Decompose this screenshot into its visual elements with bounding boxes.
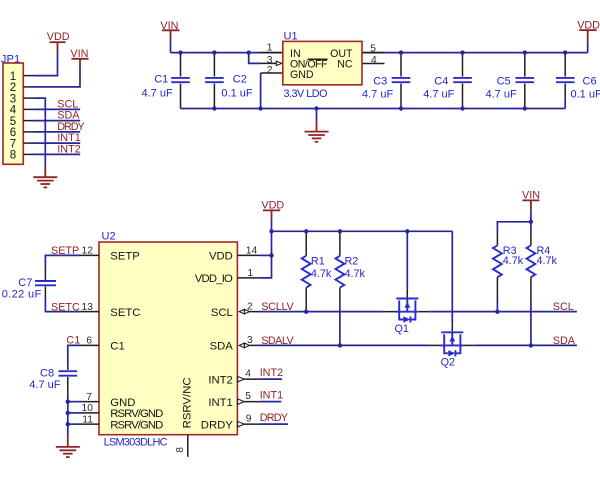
svg-text:4.7 uF: 4.7 uF bbox=[486, 88, 517, 100]
pin lead U1 pin2 (GND) bbox=[261, 72, 283, 74]
power VDD (top left) bbox=[47, 31, 70, 51]
svg-text:4.7k: 4.7k bbox=[503, 255, 524, 267]
svg-text:DRDY: DRDY bbox=[201, 419, 233, 431]
node dots top rail bbox=[178, 50, 567, 54]
svg-text:10: 10 bbox=[82, 403, 94, 414]
capacitor C4 bbox=[434, 53, 472, 109]
svg-text:RSRV/NC: RSRV/NC bbox=[182, 377, 194, 428]
wire U2 pin9 DRDY bbox=[238, 421, 288, 427]
wire C8 to ground column bbox=[67, 396, 69, 436]
svg-text:SDALV: SDALV bbox=[261, 335, 294, 347]
svg-text:SCL: SCL bbox=[211, 307, 233, 319]
wire JP1 pin3 to ground bbox=[23, 98, 45, 165]
pin lead U1 pin5 (OUT) bbox=[362, 52, 384, 54]
pin lead U1 pin1 bbox=[260, 52, 283, 54]
svg-text:13: 13 bbox=[82, 302, 94, 313]
node dot VDD stem/rail bbox=[269, 229, 273, 233]
svg-text:6: 6 bbox=[10, 127, 16, 139]
svg-text:3: 3 bbox=[247, 335, 253, 346]
svg-text:4: 4 bbox=[10, 105, 17, 117]
svg-text:R1: R1 bbox=[311, 256, 325, 268]
wire U2 pin10 bbox=[68, 412, 99, 414]
svg-text:C3: C3 bbox=[373, 75, 387, 87]
svg-text:0.1 uF: 0.1 uF bbox=[221, 87, 252, 99]
svg-text:U1: U1 bbox=[284, 31, 298, 43]
wire JP1 pin5 SDA bbox=[23, 120, 80, 122]
node dot R2/SDALV bbox=[338, 343, 342, 347]
node dots C8 column bbox=[66, 399, 70, 426]
wire U2 pin7 bbox=[68, 401, 99, 403]
svg-text:C4: C4 bbox=[434, 75, 448, 87]
svg-text:5: 5 bbox=[370, 43, 376, 54]
svg-text:GND: GND bbox=[110, 397, 135, 409]
svg-text:VDD_IO: VDD_IO bbox=[195, 273, 233, 285]
svg-text:11: 11 bbox=[82, 414, 93, 425]
svg-text:5: 5 bbox=[245, 391, 251, 402]
transistor Q1 bbox=[384, 231, 429, 334]
svg-text:4.7 uF: 4.7 uF bbox=[362, 88, 393, 100]
svg-text:INT2: INT2 bbox=[260, 367, 283, 379]
wire VIN rail (top) bbox=[171, 52, 588, 54]
wire U2 pin4 INT2 bbox=[238, 376, 282, 382]
svg-text:VDD: VDD bbox=[577, 19, 600, 31]
svg-text:SDA: SDA bbox=[210, 341, 234, 353]
resistor R4 bbox=[527, 222, 551, 346]
capacitor C7 bbox=[18, 268, 56, 298]
svg-text:1: 1 bbox=[248, 268, 254, 279]
svg-text:LSM303DLHC: LSM303DLHC bbox=[104, 436, 168, 448]
svg-text:5: 5 bbox=[10, 116, 16, 128]
svg-text:INT1: INT1 bbox=[260, 390, 283, 402]
power VDD (above U2) bbox=[261, 200, 284, 221]
svg-text:SCL: SCL bbox=[553, 301, 574, 313]
wire VIN stem down bbox=[530, 211, 532, 222]
wire U2 pin6 to C8 bbox=[68, 345, 99, 364]
svg-text:8: 8 bbox=[10, 150, 16, 162]
svg-text:4.7 uF: 4.7 uF bbox=[142, 87, 173, 99]
wire VIN branch to R3 bbox=[497, 222, 531, 233]
wire U2 pin1 VDD_IO bbox=[237, 255, 271, 278]
svg-text:6: 6 bbox=[86, 336, 92, 347]
wire VIN stem to rail bbox=[170, 40, 172, 53]
svg-text:SDA: SDA bbox=[57, 110, 80, 122]
connector JP1 bbox=[1, 53, 24, 164]
svg-text:INT2: INT2 bbox=[57, 143, 80, 155]
svg-text:INT2: INT2 bbox=[208, 374, 232, 386]
resistor R1 bbox=[302, 231, 325, 311]
svg-text:SETP: SETP bbox=[110, 251, 140, 263]
capacitor C1 bbox=[154, 53, 190, 109]
capacitor C6 bbox=[556, 53, 597, 109]
node dot VIN branch bbox=[529, 220, 533, 224]
svg-text:SCL: SCL bbox=[57, 98, 78, 110]
node dot R3/SCL bbox=[495, 309, 499, 313]
power VIN (regulator input) bbox=[160, 20, 179, 40]
svg-text:1: 1 bbox=[10, 71, 16, 83]
ground (below JP1) bbox=[33, 166, 57, 188]
pin lead U1 pin3 with arrow bbox=[260, 61, 282, 65]
svg-text:GND: GND bbox=[290, 69, 314, 81]
svg-text:SETC: SETC bbox=[110, 307, 140, 319]
svg-text:4.7 uF: 4.7 uF bbox=[29, 379, 60, 391]
svg-text:C2: C2 bbox=[233, 74, 247, 86]
svg-text:VDD: VDD bbox=[47, 31, 70, 43]
wire VDD rail stem (top right) bbox=[587, 41, 589, 52]
wire U2 pin5 INT1 bbox=[238, 399, 282, 405]
op-amp U1 regulator box bbox=[283, 31, 362, 101]
wire U2 pin12 to C7 bbox=[45, 255, 99, 267]
node: rail split to U1 pin3 bbox=[249, 53, 260, 64]
pin 8 stub bbox=[175, 435, 188, 457]
wire SCL (Q1 to right edge) bbox=[429, 311, 577, 313]
ground (top section) bbox=[305, 109, 329, 142]
capacitor C2 bbox=[205, 53, 247, 109]
node dot pin14 junction bbox=[269, 253, 273, 257]
wire JP1 pin7 INT1 bbox=[23, 142, 80, 144]
node dots VDD rail bbox=[304, 229, 409, 233]
capacitor C3 bbox=[373, 53, 410, 109]
wire JP1 pin2 to VIN bbox=[23, 68, 80, 87]
svg-text:RSRV/GND: RSRV/GND bbox=[110, 419, 163, 431]
svg-text:3.3V LDO: 3.3V LDO bbox=[284, 88, 328, 100]
svg-text:2: 2 bbox=[247, 301, 253, 312]
node dots bottom rail bbox=[212, 106, 527, 110]
wire JP1 pin6 DRDY bbox=[23, 131, 80, 133]
capacitor C8 bbox=[40, 365, 77, 396]
svg-text:Q2: Q2 bbox=[441, 356, 455, 368]
node dot R1/SCLLV bbox=[304, 309, 308, 313]
svg-text:4.7k: 4.7k bbox=[311, 268, 332, 280]
svg-text:2: 2 bbox=[267, 65, 273, 76]
svg-text:Q1: Q1 bbox=[395, 323, 409, 335]
svg-text:RSRV/GND: RSRV/GND bbox=[110, 408, 163, 420]
svg-text:1: 1 bbox=[267, 43, 273, 54]
wire U2 pin2 SCLLV bbox=[239, 309, 384, 314]
wire U2 pin14 to VDD node bbox=[237, 254, 271, 256]
svg-text:4: 4 bbox=[245, 368, 251, 379]
svg-text:14: 14 bbox=[246, 246, 258, 257]
svg-text:DRDY: DRDY bbox=[57, 121, 84, 133]
wire JP1 pin1 to VDD bbox=[23, 51, 57, 76]
svg-text:SDA: SDA bbox=[553, 335, 576, 347]
svg-text:C1: C1 bbox=[154, 74, 168, 86]
transistor Q2 bbox=[429, 231, 474, 368]
svg-text:C8: C8 bbox=[40, 367, 54, 379]
svg-text:R2: R2 bbox=[345, 256, 359, 268]
svg-text:4.7k: 4.7k bbox=[345, 268, 366, 280]
svg-text:VIN: VIN bbox=[70, 48, 88, 60]
svg-text:VDD: VDD bbox=[209, 251, 233, 263]
svg-text:NC: NC bbox=[337, 59, 353, 71]
svg-text:C1: C1 bbox=[66, 334, 80, 346]
ground (below C8) bbox=[56, 435, 80, 457]
wire C7 to U2 pin13 bbox=[45, 298, 99, 312]
svg-text:U2: U2 bbox=[102, 231, 116, 243]
svg-text:4.7 uF: 4.7 uF bbox=[423, 88, 454, 100]
svg-text:7: 7 bbox=[86, 392, 92, 403]
svg-text:C5: C5 bbox=[497, 75, 511, 87]
wire U1 GND down bbox=[260, 73, 262, 109]
svg-text:4.7k: 4.7k bbox=[537, 255, 558, 267]
power VIN (top left) bbox=[70, 48, 88, 68]
svg-text:0.22 uF: 0.22 uF bbox=[2, 289, 42, 301]
resistor R2 bbox=[336, 231, 359, 345]
svg-text:SCLLV: SCLLV bbox=[261, 301, 294, 313]
IC U2 LSM303DLHC bbox=[99, 231, 237, 435]
pin lead U1 pin4 (NC) bbox=[362, 63, 385, 65]
svg-text:3: 3 bbox=[10, 93, 16, 105]
svg-text:4: 4 bbox=[371, 55, 377, 66]
svg-text:C1: C1 bbox=[110, 341, 124, 353]
svg-text:INT1: INT1 bbox=[208, 397, 232, 409]
svg-text:DRDY: DRDY bbox=[260, 412, 288, 424]
wire U2 pin3 SDALV bbox=[239, 343, 429, 348]
wire JP1 pin4 SCL bbox=[23, 108, 80, 110]
svg-text:7: 7 bbox=[10, 138, 16, 150]
svg-text:C7: C7 bbox=[18, 277, 32, 289]
svg-text:8: 8 bbox=[175, 447, 186, 453]
wire VDD stem down to pin14 bbox=[271, 220, 273, 255]
power VIN (above R3/R4) bbox=[522, 189, 540, 210]
svg-text:0.1 uF: 0.1 uF bbox=[571, 88, 600, 100]
svg-text:2: 2 bbox=[10, 82, 16, 94]
capacitor C5 bbox=[497, 53, 534, 109]
wire VDD rail (level shifter) bbox=[272, 230, 453, 232]
wire JP1 pin8 INT2 bbox=[23, 153, 80, 155]
svg-text:SETC: SETC bbox=[51, 302, 80, 314]
svg-text:C6: C6 bbox=[583, 75, 597, 87]
resistor R3 bbox=[493, 233, 517, 312]
node dot R4/SDA bbox=[529, 343, 533, 347]
power VDD (top right) bbox=[577, 19, 600, 41]
wire U2 pin11 bbox=[68, 423, 99, 425]
svg-text:INT1: INT1 bbox=[57, 132, 80, 144]
svg-text:JP1: JP1 bbox=[1, 53, 20, 65]
svg-text:9: 9 bbox=[246, 413, 252, 424]
wire bottom rail (top section) bbox=[181, 108, 566, 110]
wire SDA (Q2 to right edge) bbox=[474, 344, 577, 346]
